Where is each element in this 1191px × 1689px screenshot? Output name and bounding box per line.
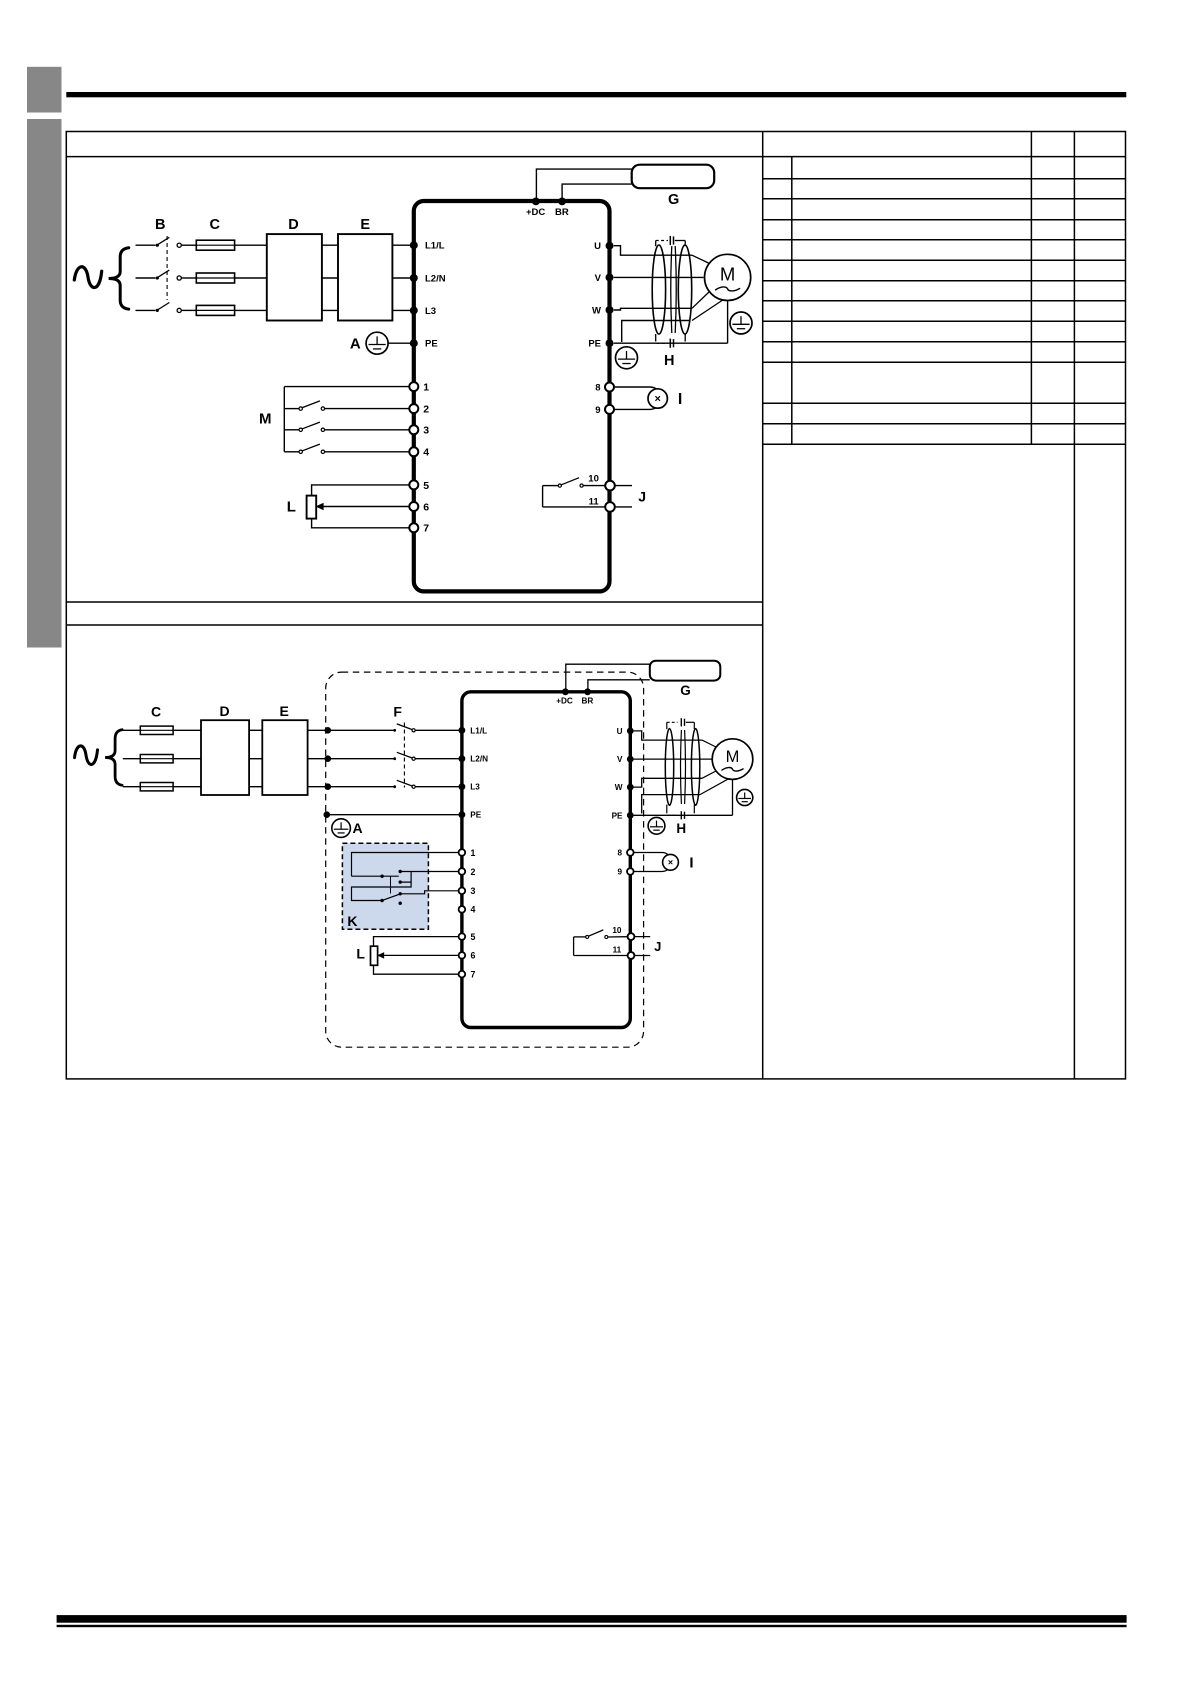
switch F linkage dashed — [403, 723, 405, 788]
wire box E to drive pole 2 — [392, 277, 412, 279]
brake resistor G (top) — [632, 165, 715, 189]
AC source symbol (bottom) — [75, 746, 98, 765]
wire switch F to drive pole 3 (bottom) — [415, 786, 460, 788]
wire J to terminal 10 — [583, 485, 605, 487]
wire PE to shield — [622, 321, 690, 343]
wire switch F to drive pole 1 (bottom) — [415, 729, 460, 731]
wire shield to motor earth (bottom) — [700, 779, 729, 795]
cable inner sheath lines (bottom) — [680, 730, 683, 804]
svg-text:A: A — [352, 820, 362, 836]
svg-text:BR: BR — [555, 207, 569, 218]
svg-text:C: C — [210, 217, 221, 233]
terminal PE (bottom, input) — [459, 811, 466, 818]
svg-text:6: 6 — [471, 951, 476, 961]
svg-text:1: 1 — [471, 848, 476, 858]
wire PE to shield (bottom) — [642, 795, 700, 814]
motor M1 (top) — [705, 254, 751, 300]
svg-text:I: I — [689, 855, 693, 872]
svg-text:L2/N: L2/N — [425, 273, 446, 284]
drive unit outline (bottom) — [462, 692, 630, 1028]
terminal 9 (top) — [605, 405, 614, 414]
wire box E to switch F pole 2 (bottom) — [308, 758, 394, 760]
terminal 1 (top) — [409, 382, 418, 391]
switch F pole 1 (bottom) — [393, 729, 396, 732]
wire J bracket top (bottom) — [574, 936, 586, 938]
wire box E to switch F pole 1 (bottom) — [308, 729, 394, 731]
wire switch B to fuse C1 — [181, 244, 196, 246]
terminal PE (top, input) — [410, 339, 418, 347]
svg-text:E: E — [360, 217, 370, 233]
wire cable to motor phase 1 (top) — [692, 255, 710, 263]
wiper arrow (top) — [316, 503, 323, 509]
wire K to terminal 1 (bottom) — [352, 853, 459, 877]
svg-text:L: L — [356, 946, 365, 962]
terminal L3 (bottom, input) — [459, 783, 466, 790]
frame header band line — [66, 156, 1125, 158]
svg-text:PE: PE — [470, 811, 481, 820]
terminal 6 (bottom) — [459, 952, 466, 959]
svg-text:M: M — [720, 264, 735, 285]
potentiometer L (bottom) — [371, 946, 378, 965]
terminal 5 (bottom) — [459, 933, 466, 940]
terminal 3 (top) — [409, 425, 418, 434]
terminal +DC (top) — [532, 198, 540, 206]
wire M bracket to switch M3 — [284, 429, 299, 431]
wire box E to switch F pole 3 (bottom) — [308, 786, 394, 788]
fuse C1 (bottom) — [140, 726, 173, 734]
junction dot pole 1 (bottom) — [325, 727, 332, 734]
terminal V (top, output) — [606, 273, 614, 281]
wire terminal 11 right stub — [615, 506, 632, 508]
wire cable to motor phase 1 (bottom) — [702, 740, 716, 747]
svg-text:E: E — [280, 703, 289, 719]
section divider band top — [66, 601, 762, 603]
terminal 6 (top) — [409, 502, 418, 511]
terminal PE (bottom, output) — [627, 812, 634, 819]
box E (bottom) — [262, 720, 307, 795]
wire box D to box E pole 1 — [322, 244, 338, 246]
svg-text:11: 11 — [589, 497, 600, 508]
svg-text:B: B — [155, 217, 165, 233]
wire K to terminal 3 (bottom) — [400, 891, 458, 894]
wire V to motor cable (bottom) — [634, 758, 713, 760]
wire K throw to terminal 2 (bottom) — [400, 871, 458, 873]
svg-text:G: G — [680, 683, 691, 698]
ground circle at motor (top) — [730, 312, 752, 334]
svg-text:J: J — [654, 939, 661, 954]
wire fuse to box D pole 2 (bottom) — [173, 758, 201, 760]
svg-text:11: 11 — [613, 945, 622, 954]
svg-text:D: D — [220, 703, 230, 719]
switch B pole 1 — [156, 244, 159, 247]
wire V to motor cable — [614, 276, 704, 278]
svg-text:G: G — [668, 192, 679, 208]
svg-text:BR: BR — [581, 697, 593, 706]
svg-text:W: W — [592, 305, 601, 316]
svg-text:PE: PE — [612, 811, 623, 820]
wire ground A to PE (top) — [388, 342, 412, 344]
terminal L2/N (bottom, input) — [459, 755, 466, 762]
table vertical col3 — [1030, 132, 1032, 445]
fuse C2 (bottom) — [140, 755, 173, 763]
terminal 3 (bottom) — [459, 888, 466, 895]
junction dot PE (bottom) — [324, 811, 331, 818]
fuse C3 (top) — [196, 305, 234, 315]
K switch 1 throw b dot — [399, 880, 402, 883]
cable shield right ellipse (bottom) — [691, 729, 699, 806]
terminal PE (top, output) — [606, 339, 614, 347]
K switch 1 throw a dot — [399, 870, 402, 873]
terminal U (top, output) — [606, 242, 614, 250]
wire terminal 6 wiper — [322, 506, 409, 508]
svg-text:5: 5 — [423, 480, 429, 492]
wire terminal 8 to sensor — [614, 386, 650, 388]
wire cable to motor phase 3 (top) — [692, 292, 710, 309]
svg-text:6: 6 — [423, 501, 429, 513]
wire W to motor cable (bottom) — [634, 778, 702, 787]
wire motor earth drop (bottom) — [732, 779, 734, 816]
switch J (bottom) — [586, 935, 589, 938]
wire box E to drive pole 1 — [392, 244, 412, 246]
wire terminal 10 right stub (bottom) — [634, 936, 650, 938]
wire M bracket to switch M4 — [284, 451, 299, 453]
terminal 7 (top) — [409, 523, 418, 532]
svg-text:L3: L3 — [425, 306, 436, 317]
AC source symbol (top) — [74, 267, 101, 288]
svg-text:4: 4 — [471, 905, 476, 915]
svg-text:2: 2 — [471, 867, 476, 877]
wire M to terminal 1 — [284, 386, 409, 388]
wiper arrow (bottom) — [378, 953, 384, 958]
terminal 7 (bottom) — [459, 971, 466, 978]
switch F pole 2 (bottom) — [393, 757, 396, 760]
switch B pole 3 — [156, 309, 159, 312]
terminal U (bottom, output) — [627, 728, 634, 735]
terminal L1/L (top, input) — [410, 241, 418, 249]
K switch linkage — [390, 876, 392, 893]
page bottom rule thin — [57, 1625, 1127, 1627]
outer frame — [66, 132, 1125, 1079]
wire switch B to fuse C2 — [181, 277, 196, 279]
wire source to fuse C3 (bottom) — [123, 786, 141, 788]
svg-text:I: I — [678, 391, 682, 408]
box D (top) — [267, 234, 322, 320]
cable shield left ellipse (bottom) — [665, 729, 673, 806]
svg-text:2: 2 — [423, 404, 429, 416]
terminal L1/L (bottom, input) — [459, 727, 466, 734]
svg-text:8: 8 — [617, 849, 622, 858]
wire terminal 11 right stub (bottom) — [634, 955, 650, 957]
wire +DC to brake resistor — [536, 169, 631, 199]
wire terminal 7 to potentiometer — [312, 519, 410, 528]
svg-text:+DC: +DC — [526, 207, 545, 218]
svg-text:9: 9 — [595, 405, 600, 416]
svg-text:J: J — [638, 489, 646, 505]
sensor loop arc (bottom) — [662, 853, 672, 872]
wire terminal 7 to potentiometer (bottom) — [374, 965, 459, 974]
wire PE line to motor (bottom) — [634, 814, 733, 816]
switch M2 — [299, 407, 302, 410]
fuse C3 (bottom) — [140, 783, 173, 791]
wire terminal 5 to potentiometer (bottom) — [374, 937, 459, 947]
switch B pole 2 — [156, 276, 159, 279]
terminal W (bottom, output) — [627, 784, 634, 791]
wire U to motor cable (bottom) — [634, 731, 702, 740]
wire switch B to fuse C3 — [181, 309, 196, 311]
stray capacitance top (top) — [655, 241, 657, 247]
wire source to fuse C2 (bottom) — [123, 758, 141, 760]
svg-text:3: 3 — [471, 886, 476, 896]
wire J to terminal 10 (bottom) — [608, 936, 628, 938]
svg-text:D: D — [288, 217, 298, 233]
K switch 2 common dot — [380, 899, 383, 902]
svg-text:10: 10 — [588, 474, 599, 485]
box E (top) — [338, 234, 392, 320]
brace (top) — [109, 248, 129, 309]
table row lines — [763, 179, 1126, 445]
bracket J (top) — [542, 486, 544, 507]
terminal L3 (top, input) — [410, 306, 418, 314]
wire BR to brake resistor — [562, 184, 632, 199]
wire shield to motor earth (top) — [692, 300, 724, 321]
wire source to switch B pole 1 — [136, 244, 156, 246]
cable shield left ellipse (top) — [652, 245, 665, 334]
ground A circle (bottom) — [332, 819, 351, 838]
ground circle under PE (top) — [616, 347, 638, 369]
svg-text:F: F — [393, 703, 402, 719]
grey margin tab (tall) — [27, 119, 62, 648]
svg-text:4: 4 — [423, 447, 429, 459]
wire source to switch B pole 2 — [136, 277, 156, 279]
terminal 4 (top) — [409, 447, 418, 456]
svg-text:3: 3 — [423, 425, 429, 437]
terminal 5 (top) — [409, 480, 418, 489]
svg-text:5: 5 — [471, 932, 476, 942]
svg-text:U: U — [617, 727, 623, 736]
speed sensor I (bottom) — [663, 854, 679, 870]
svg-text:L: L — [287, 499, 296, 516]
switch M3 — [299, 428, 302, 431]
terminal L2/N (top, input) — [410, 274, 418, 282]
switch F pole 3 (bottom) — [393, 785, 396, 788]
terminal W (top, output) — [606, 306, 614, 314]
wire cable to motor phase 3 (bottom) — [702, 771, 716, 778]
wire terminal 6 wiper (bottom) — [383, 954, 459, 956]
wire motor earth drop (top) — [727, 299, 729, 343]
wire terminal 8 to sensor (bottom) — [634, 852, 662, 854]
junction dot pole 2 (bottom) — [325, 755, 332, 762]
svg-text:9: 9 — [617, 868, 622, 877]
wire box E to drive pole 3 — [392, 309, 412, 311]
wire J bracket bottom (bottom) — [574, 955, 628, 957]
svg-text:8: 8 — [595, 382, 600, 393]
wire switch M4 to terminal 4 — [325, 451, 410, 453]
terminal BR (top) — [558, 198, 566, 206]
cable inner sheath lines (top) — [671, 246, 672, 333]
svg-text:7: 7 — [471, 970, 476, 980]
ground circle under PE (bottom) — [648, 817, 665, 834]
wire +DC to brake resistor (bottom) — [566, 664, 650, 690]
wire terminal 9 to sensor — [614, 408, 650, 410]
drive unit outline (top) — [414, 201, 610, 591]
cable shield right ellipse (top) — [678, 245, 691, 334]
svg-text:7: 7 — [423, 523, 429, 535]
fuse C2 (top) — [196, 273, 234, 283]
junction dot pole 3 (bottom) — [325, 783, 332, 790]
K switch 2 throw a dot — [399, 892, 402, 895]
terminal 11 (bottom) — [628, 952, 635, 959]
svg-text:1: 1 — [423, 382, 429, 394]
wire J bracket bottom (top) — [543, 506, 606, 508]
sensor loop arc (top) — [650, 387, 661, 409]
wire W to motor cable — [614, 308, 692, 310]
svg-text:H: H — [664, 353, 674, 369]
stray capacitance bottom (top) — [655, 334, 657, 342]
switch M4 — [299, 450, 302, 453]
wire box D to box E pole 3 (bottom) — [249, 786, 262, 788]
wire fuse to box D pole 3 (bottom) — [173, 786, 201, 788]
wire box D to box E pole 3 — [322, 309, 338, 311]
wire source to switch B pole 3 — [136, 309, 156, 311]
svg-text:V: V — [617, 755, 623, 764]
svg-text:A: A — [350, 335, 361, 352]
switch B linkage dashed — [166, 236, 168, 300]
brace (bottom) — [105, 730, 122, 786]
K link junction riser — [410, 872, 412, 883]
terminal 1 (bottom) — [459, 849, 466, 856]
svg-text:W: W — [615, 783, 623, 792]
terminal +DC (bottom) — [562, 688, 569, 695]
wire fuse C1 to box D — [235, 244, 267, 246]
switch J (top) — [558, 484, 561, 487]
bracket M group — [283, 387, 285, 452]
bracket J (bottom) — [573, 937, 575, 956]
section divider band bottom — [66, 624, 762, 626]
K switch 1 common dot — [380, 875, 383, 878]
ground circle at motor (bottom) — [737, 789, 753, 805]
fuse C1 (top) — [196, 240, 234, 250]
svg-text:PE: PE — [588, 339, 601, 350]
wire K common 1 (bottom) — [352, 875, 399, 877]
terminal BR (bottom) — [584, 688, 591, 695]
installation boundary dashed box (bottom) — [326, 672, 644, 1047]
wire K throw b link (bottom) — [352, 882, 412, 900]
svg-text:PE: PE — [425, 339, 438, 350]
svg-text:+DC: +DC — [556, 697, 573, 706]
wire switch F to drive pole 2 (bottom) — [415, 758, 460, 760]
wire box D to box E pole 2 — [322, 277, 338, 279]
wire PE line to motor (top) — [614, 342, 728, 344]
speed sensor I (top) — [648, 389, 667, 408]
wire source to fuse C1 (bottom) — [123, 729, 141, 731]
table vertical col2 — [791, 157, 793, 445]
table vertical col4 — [1073, 132, 1075, 1079]
wire BR to brake resistor (bottom) — [588, 680, 650, 690]
wire box D to box E pole 1 (bottom) — [249, 729, 262, 731]
terminal 10 (bottom) — [628, 933, 635, 940]
terminal 10 (top) — [605, 481, 615, 491]
svg-text:10: 10 — [612, 926, 622, 935]
K switch 2 throw b dot — [399, 902, 402, 905]
wire J bracket top (top) — [543, 485, 559, 487]
svg-text:H: H — [676, 821, 686, 836]
terminal 2 (bottom) — [459, 868, 466, 875]
terminal 4 (bottom) — [459, 906, 466, 913]
terminal 11 (top) — [605, 502, 615, 512]
terminal 8 (bottom) — [627, 849, 634, 856]
wire switch M3 to terminal 3 — [325, 429, 410, 431]
svg-text:U: U — [594, 241, 601, 252]
ground A circle (top) — [366, 332, 388, 354]
stray capacitance bottom (bottom) — [666, 805, 668, 814]
terminal 8 (top) — [605, 383, 614, 392]
grey margin tab (small) — [27, 67, 62, 113]
wire fuse to box D pole 1 (bottom) — [173, 729, 201, 731]
brake resistor G (bottom) — [650, 661, 721, 681]
svg-text:M: M — [726, 748, 740, 766]
terminal V (bottom, output) — [627, 756, 634, 763]
terminal 9 (bottom) — [627, 868, 634, 875]
wire PE feed (bottom) — [328, 814, 460, 816]
terminal 2 (top) — [409, 404, 418, 413]
control block K (bottom) — [342, 843, 428, 929]
wire terminal 9 to sensor (bottom) — [634, 871, 662, 873]
svg-text:M: M — [259, 411, 272, 428]
svg-text:L1/L: L1/L — [425, 241, 445, 252]
wire terminal 10 right stub — [615, 485, 632, 487]
wire fuse C2 to box D — [235, 277, 267, 279]
table divider vertical (diagram|table) — [762, 132, 764, 1079]
svg-text:V: V — [595, 273, 602, 284]
K switch 2 blade — [383, 894, 400, 900]
wire U to motor cable — [614, 246, 692, 256]
wire M bracket to switch M2 — [284, 408, 299, 410]
motor M1 (bottom) — [712, 739, 753, 780]
wire fuse C3 to box D — [235, 309, 267, 311]
svg-text:L1/L: L1/L — [470, 726, 487, 735]
svg-text:L2/N: L2/N — [470, 755, 488, 764]
wire switch M2 to terminal 2 — [325, 408, 410, 410]
svg-text:K: K — [347, 913, 357, 929]
wire box D to box E pole 2 (bottom) — [249, 758, 262, 760]
svg-text:C: C — [151, 703, 161, 719]
page bottom rule thick — [57, 1615, 1127, 1623]
box D (bottom) — [201, 720, 249, 795]
wire terminal 5 to potentiometer — [312, 485, 410, 496]
svg-text:L3: L3 — [470, 783, 480, 792]
stray capacitance top (bottom) — [666, 722, 668, 729]
page top rule — [66, 92, 1126, 97]
potentiometer L (top) — [307, 496, 317, 519]
